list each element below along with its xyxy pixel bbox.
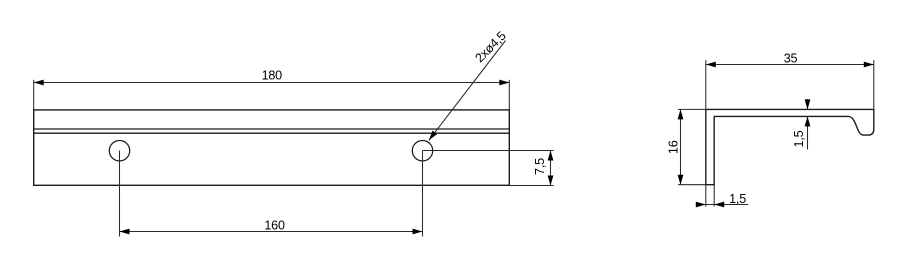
dimension line 35 [706,64,874,66]
leader line 2x4,5 [429,41,506,141]
dimension line 1,5 leg [696,204,748,206]
dimension line 7,5 [550,151,552,186]
svg-text:160: 160 [264,218,285,232]
extension line leg right [713,185,715,207]
extension line 7,5 top from hole center [423,150,554,152]
extension line 180 left [33,80,35,110]
front view: groove line lower [34,132,510,134]
arrow 35 right [864,62,874,68]
arrow 1,5 leg left-pointing [714,202,724,208]
svg-text:1,5: 1,5 [792,130,806,147]
extension line 16 bottom [678,184,706,186]
arrow 1,5 flange up [805,116,811,126]
extension line 7,5 bottom from bar edge [509,185,553,187]
arrow 160 left [120,229,130,235]
dimension line 16 [680,109,682,184]
svg-text:16: 16 [666,140,680,154]
dimension 1,5 flange lower tail [807,116,809,149]
svg-text:35: 35 [784,52,798,66]
arrow 1,5 flange down [805,99,811,109]
arrow 7,5 down [548,176,554,186]
dimension line 180 [34,82,510,84]
extension line 16 top [678,108,706,110]
dimension 1,5 flange upper tail [807,99,809,110]
extension line 35 right [873,60,875,109]
hole left [109,141,129,161]
arrow 160 right [413,229,423,235]
hole left center line [119,151,121,237]
svg-text:7,5: 7,5 [533,158,547,175]
extension line 35 left [705,60,707,109]
leader arrow [429,131,437,141]
arrow 180 right [499,80,509,86]
svg-text:1,5: 1,5 [729,192,746,206]
extension line leg left [705,185,707,207]
front view: bar outline [34,110,510,185]
arrow 1,5 leg right-pointing [696,202,706,208]
hole right center line [422,151,424,237]
side view: profile outline [706,109,874,184]
dimension line 160 [120,231,423,233]
arrow 7,5 up [548,151,554,161]
extension line 180 right [508,80,510,110]
arrow 180 left [34,80,44,86]
arrow 35 left [706,62,716,68]
arrow 16 up [678,109,684,119]
hole right [412,141,432,161]
svg-text:180: 180 [262,69,283,83]
front view: groove line upper [34,128,510,130]
arrow 16 down [678,175,684,185]
